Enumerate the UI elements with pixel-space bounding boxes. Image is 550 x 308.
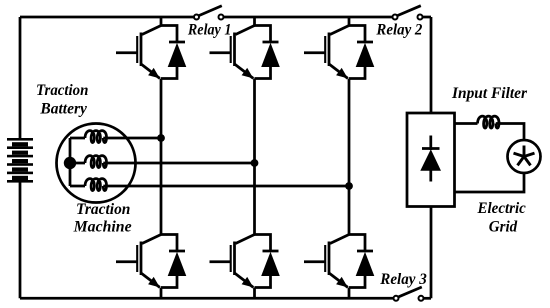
transistor: IGBT of top IGBT leg 2 (Q2) (210, 26, 255, 79)
wire: top IGBT leg 1 (Q1) bottom connection (160, 79, 163, 139)
wire: left DC bus upper (19, 17, 22, 139)
transistor: IGBT of bottom IGBT leg 3 (Q6) (304, 235, 349, 288)
wire: machine phase 3 lead (70, 185, 85, 188)
svg-text:Relay 3: Relay 3 (379, 271, 427, 288)
wire: bottom DC rail left segment (20, 297, 396, 300)
diode: freewheeling diode of top IGBT leg 1 (Q1) (168, 42, 187, 67)
wire: rectifier AC top lead (455, 122, 478, 125)
wire: top IGBT leg 3 (Q3) bottom connection (348, 79, 351, 187)
wire: machine star-point bus (69, 138, 72, 186)
label: Traction Battery (36, 82, 88, 118)
wire: top DC rail middle segment (221, 16, 395, 19)
node: leg 3 midpoint junction (345, 182, 353, 190)
wire: right bus upper (relay 2 to rectifier) (430, 17, 433, 113)
svg-text:Grid: Grid (489, 219, 518, 236)
wire: left DC bus lower (19, 181, 22, 298)
inductor: machine phase 2 winding (85, 156, 107, 168)
switch: Relay 3 (394, 287, 424, 301)
svg-text:Machine: Machine (73, 219, 132, 236)
wire: top IGBT leg 1 (Q1) top connection (160, 17, 163, 26)
wire: rectifier AC bottom lead to grid (455, 173, 525, 193)
wire: top DC rail left segment (20, 16, 197, 19)
switch: Relay 1 (194, 6, 224, 20)
diode: freewheeling diode of bottom IGBT leg 2 (Q5) (261, 251, 280, 276)
svg-text:Relay 2: Relay 2 (375, 22, 422, 39)
label: Electric Grid (477, 200, 526, 236)
svg-text:Input Filter: Input Filter (451, 85, 528, 102)
transistor: IGBT of bottom IGBT leg 2 (Q5) (210, 235, 255, 288)
rectifier: grid charger box (407, 113, 455, 207)
wire: phase 1 to inverter leg 1 (103, 137, 161, 140)
wire: bottom IGBT leg 3 (Q6) top connection (348, 186, 351, 235)
battery: Traction Battery (7, 138, 33, 183)
label: Traction Machine (73, 201, 132, 236)
wire: machine phase 1 lead (70, 137, 85, 140)
wire: bottom DC rail right segment (421, 297, 431, 300)
machine: Traction Machine stator circle (57, 124, 136, 203)
diode: freewheeling diode of bottom IGBT leg 3 (Q6) (356, 251, 375, 276)
wire: bottom IGBT leg 3 (Q6) bottom connection (348, 288, 351, 299)
svg-text:Traction: Traction (76, 201, 130, 218)
svg-text:Battery: Battery (39, 101, 87, 118)
wire: top IGBT leg 2 (Q2) top connection (253, 17, 256, 26)
diode: rectifier diode symbol (420, 136, 441, 182)
wire: top IGBT leg 1 (Q1) diode branch (161, 26, 177, 79)
diode: freewheeling diode of top IGBT leg 2 (Q2) (261, 42, 280, 67)
transistor: IGBT of bottom IGBT leg 1 (Q4) (116, 235, 161, 288)
node: leg 1 midpoint junction (157, 134, 165, 142)
wire: right bus lower (rectifier to relay 3) (430, 207, 433, 299)
inductor: machine phase 3 winding (85, 179, 107, 191)
diode: freewheeling diode of top IGBT leg 3 (Q3) (356, 42, 375, 67)
wire: machine phase 2 lead (70, 162, 85, 165)
source: Electric Grid (508, 140, 541, 173)
node: leg 2 midpoint junction (251, 159, 259, 167)
inductor: machine phase 1 winding (85, 131, 107, 143)
transistor: IGBT of top IGBT leg 3 (Q3) (304, 26, 349, 79)
switch: Relay 2 (393, 6, 423, 20)
wire: filter to grid top (496, 124, 524, 141)
svg-text:Relay 1: Relay 1 (187, 22, 231, 39)
wire: bottom IGBT leg 2 (Q5) bottom connection (253, 288, 256, 299)
diode: freewheeling diode of bottom IGBT leg 1 (Q4) (168, 251, 187, 276)
wire: bottom IGBT leg 1 (Q4) top connection (160, 138, 163, 235)
wire: top IGBT leg 3 (Q3) diode branch (349, 26, 365, 79)
wire: top IGBT leg 3 (Q3) top connection (348, 17, 351, 26)
wire: top IGBT leg 2 (Q2) bottom connection (253, 79, 256, 164)
wire: phase 3 to inverter leg 3 (103, 185, 349, 188)
node: machine star point (64, 157, 76, 169)
wire: top IGBT leg 2 (Q2) diode branch (255, 26, 271, 79)
svg-text:Traction: Traction (36, 82, 88, 99)
wire: bottom IGBT leg 2 (Q5) top connection (253, 163, 256, 235)
transistor: IGBT of top IGBT leg 1 (Q1) (116, 26, 161, 79)
inductor: Input Filter inductor (478, 116, 500, 128)
wire: top DC rail right segment (420, 16, 431, 19)
wire: bottom IGBT leg 1 (Q4) bottom connection (160, 288, 163, 299)
wire: bottom IGBT leg 1 (Q4) diode branch (161, 235, 177, 288)
wire: bottom IGBT leg 2 (Q5) diode branch (255, 235, 271, 288)
wire: bottom IGBT leg 3 (Q6) diode branch (349, 235, 365, 288)
svg-text:Electric: Electric (477, 200, 526, 217)
wire: phase 2 to inverter leg 2 (103, 162, 254, 165)
